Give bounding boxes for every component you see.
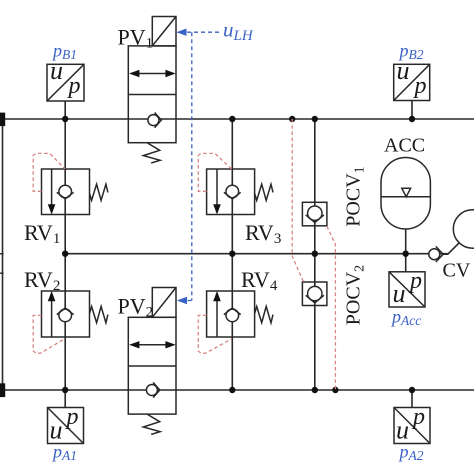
proportional valve PV2 [128, 288, 176, 435]
junction RV1-RV2 / middle bus [62, 251, 68, 257]
sensor pA2 [394, 408, 430, 444]
junction POCV2 pilot tap / top bus [289, 116, 295, 122]
relief valve RV2 [42, 291, 108, 337]
junction pA2 / bottom bus [409, 387, 415, 393]
sensor pB1 [47, 64, 84, 101]
wire column RV1/RV2 vertical [64, 101, 66, 408]
relief valve RV3 [207, 169, 273, 215]
svg-text:u: u [393, 279, 406, 308]
wire column RV3/RV4 vertical [231, 119, 233, 390]
svg-text:p: p [411, 404, 425, 430]
pilot operated check valve POCV2 [302, 282, 327, 306]
wire top bus B [0, 118, 474, 120]
junction POCV2 column / bottom bus [312, 387, 318, 393]
junction POCV1 pilot tap / bottom bus [332, 387, 338, 393]
wire middle bus (accumulator line) [65, 253, 448, 255]
accumulator ACC [381, 158, 430, 229]
wire sensor pB2 drop [411, 101, 413, 120]
svg-text:p: p [413, 73, 427, 99]
junction POCV1 column / top bus [312, 116, 318, 122]
pilot line POCV2 [292, 119, 303, 282]
junction RV2 / bottom bus [62, 387, 68, 393]
svg-text:ACC: ACC [384, 135, 425, 157]
svg-text:u: u [396, 416, 409, 445]
relief valve RV4 [207, 291, 273, 337]
svg-text:u: u [50, 416, 63, 445]
junction POCV column / middle bus [312, 251, 318, 257]
junction pB1 / top bus [62, 116, 68, 122]
svg-text:p: p [408, 268, 422, 294]
pilot line RV4 [198, 315, 232, 353]
pump circle (cropped at right edge) [453, 210, 474, 248]
sensor pB2 [394, 64, 430, 100]
svg-text:p: p [65, 404, 79, 430]
wire left edge vertical [2, 119, 4, 390]
control arrow into PV2 [177, 297, 187, 304]
port tick lower [0, 272, 4, 274]
wire column POCV vertical [314, 119, 316, 390]
pilot operated check valve POCV1 [302, 202, 327, 226]
check valve CV [429, 246, 443, 262]
wire sensor pA2 drop [411, 390, 413, 408]
control signal uLH dashed lines [187, 32, 221, 300]
pilot line POCV1 [327, 226, 336, 390]
sensor pAcc [389, 272, 425, 307]
pilot line RV1 [33, 153, 65, 191]
port tick upper [0, 253, 4, 255]
junction RV4 / bottom bus [229, 387, 235, 393]
svg-text:POCV1: POCV1 [343, 166, 368, 226]
wire accumulator drop [405, 229, 407, 272]
junction RV3-RV4 / middle bus [229, 251, 235, 257]
pilot line RV2 [33, 315, 65, 353]
svg-text:CV: CV [443, 260, 471, 282]
sensor pA1 [48, 408, 84, 444]
control arrow into PV1 [176, 29, 186, 36]
wire bottom bus A [0, 389, 474, 391]
svg-text:p: p [67, 73, 81, 99]
port tab top left [0, 113, 5, 127]
junction pB2 / top bus [409, 116, 415, 122]
wire CV diagonal to pump circle [443, 243, 459, 255]
port tab bottom left [0, 383, 5, 397]
junction ACC / middle bus [403, 251, 409, 257]
junction RV3 column / top bus [229, 116, 235, 122]
proportional valve PV1 [128, 17, 176, 164]
svg-text:POCV2: POCV2 [343, 265, 368, 325]
relief valve RV1 [42, 169, 108, 215]
pilot line RV3 [198, 153, 232, 191]
